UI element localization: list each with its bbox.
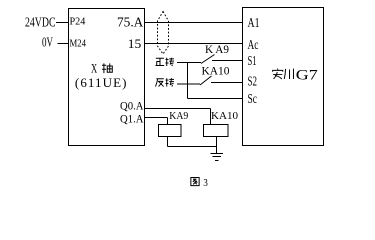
svg-text:X: X [91,61,98,76]
svg-text:Q0.A: Q0.A [120,101,144,113]
svg-text:K A9: K A9 [205,44,229,56]
svg-text:Sc: Sc [248,92,258,107]
svg-text:A1: A1 [248,16,260,31]
svg-text:KA10: KA10 [202,66,230,78]
svg-text:(611UE): (611UE) [75,75,127,90]
svg-text:24VDC: 24VDC [25,16,56,31]
svg-text:Ac: Ac [248,38,259,53]
svg-text:S1: S1 [248,54,257,69]
svg-text:KA9: KA9 [169,110,188,122]
svg-text:0V: 0V [42,36,53,51]
svg-text:P24: P24 [70,16,86,28]
svg-text:3: 3 [203,177,208,189]
svg-text:M24: M24 [70,38,87,50]
svg-text:Q1.A: Q1.A [120,113,144,125]
svg-text:15: 15 [128,36,142,51]
svg-text:G7: G7 [296,68,318,84]
svg-text:75.A: 75.A [117,16,144,31]
svg-text:S2: S2 [248,75,258,90]
svg-text:KA10: KA10 [211,110,238,122]
